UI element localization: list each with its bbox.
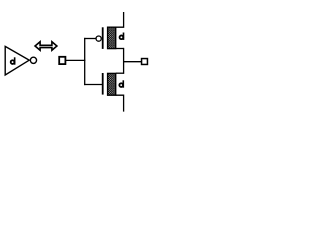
- NMOS source lead + GND stub: [116, 95, 124, 111]
- PMOS gate bar: [102, 27, 104, 49]
- gate rail wire: [84, 38, 86, 85]
- label d (inverter): [11, 57, 16, 64]
- drain connection wire (output node): [123, 48, 125, 74]
- NMOS drain lead: [116, 72, 124, 74]
- NMOS Q2 channel box (hatched): [108, 73, 116, 95]
- PMOS drain lead: [116, 48, 124, 50]
- inverter U1 (NOT gate triangle): [5, 46, 29, 75]
- PMOS source lead + VDD stub: [116, 12, 124, 27]
- NMOS label d: [119, 80, 124, 87]
- output wire: [124, 61, 142, 63]
- input wire: [66, 59, 85, 61]
- NMOS gate wire: [84, 84, 103, 86]
- PMOS gate bubble: [96, 36, 101, 41]
- PMOS label d: [120, 33, 125, 40]
- NMOS gate bar: [102, 73, 104, 95]
- input terminal square: [59, 57, 65, 64]
- PMOS Q1 channel box (hatched): [108, 27, 116, 48]
- PMOS gate wire: [84, 38, 96, 40]
- output terminal square: [142, 59, 148, 65]
- inverter output bubble: [30, 57, 36, 63]
- equivalence arrow (double-headed): [35, 42, 57, 51]
